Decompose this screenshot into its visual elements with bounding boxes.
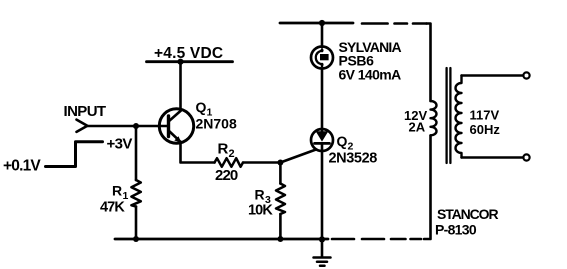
wire emitter to R2 [181, 142, 215, 163]
svg-text:6V 140mA: 6V 140mA [339, 67, 402, 83]
svg-text:2N3528: 2N3528 [329, 151, 378, 167]
node cathode bottom [319, 236, 325, 242]
wire collector [179, 62, 182, 111]
wire SCR cathode [321, 144, 324, 240]
svg-text:47K: 47K [100, 200, 125, 216]
transformer T1 primary winding [431, 101, 437, 135]
wire node to R3 [279, 163, 282, 184]
node lamp top [319, 20, 325, 26]
svg-text:INPUT: INPUT [64, 103, 106, 120]
wire R1 to bottom rail [135, 207, 138, 240]
svg-text:10K: 10K [248, 203, 273, 219]
node input junction [133, 123, 139, 129]
wire secondary bottom [462, 156, 524, 159]
transformer T1 secondary winding [456, 76, 462, 158]
svg-text:117V: 117V [470, 108, 500, 123]
svg-text:R: R [112, 183, 122, 199]
wire R3 to bottom rail [279, 214, 282, 239]
input step waveform [46, 142, 103, 167]
bottom rail [115, 238, 328, 241]
svg-text:2: 2 [229, 148, 235, 160]
wire R2 to node [243, 161, 280, 164]
wire primary to bottom corner [424, 135, 431, 239]
wire lamp to SCR [321, 69, 324, 133]
svg-text:STANCOR: STANCOR [437, 206, 498, 222]
node gate junction [277, 160, 283, 166]
node R1 bottom [133, 236, 139, 242]
svg-text:60Hz: 60Hz [470, 122, 501, 137]
transformer core [447, 68, 451, 163]
dashed wire top [362, 22, 427, 25]
svg-text:+3V: +3V [107, 136, 133, 153]
top rail [280, 22, 353, 25]
power rail +4.5VDC [147, 45, 233, 62]
wire secondary top [462, 74, 524, 77]
node R3 bottom [277, 236, 283, 242]
svg-text:R: R [218, 141, 229, 158]
dashed wire bottom [332, 238, 421, 241]
svg-text:2N708: 2N708 [196, 116, 237, 132]
terminal top [523, 72, 529, 78]
ground [314, 239, 331, 266]
svg-text:220: 220 [215, 167, 238, 184]
resistor R2 [215, 141, 244, 185]
wire base [136, 125, 169, 128]
terminal bottom [523, 154, 529, 160]
wire gate [280, 150, 316, 163]
svg-text:P-8130: P-8130 [435, 222, 477, 238]
transistor Q1 [159, 99, 237, 143]
resistor R3 [248, 184, 285, 219]
svg-text:2A: 2A [409, 120, 426, 135]
svg-text:+4.5 VDC: +4.5 VDC [154, 45, 223, 62]
wire top corner to primary [427, 24, 431, 102]
SCR Q2 [311, 129, 377, 167]
svg-text:Q: Q [196, 99, 207, 115]
node collector on rail [177, 59, 183, 65]
lamp DS1 [311, 47, 333, 69]
wire input to node [88, 125, 137, 128]
input arrow [77, 120, 88, 132]
wire node to R1 [135, 126, 138, 180]
resistor R1 [100, 180, 141, 216]
svg-text:+0.1V: +0.1V [3, 158, 41, 175]
svg-text:R: R [255, 187, 265, 203]
wire rail to lamp [321, 23, 324, 47]
svg-text:Q: Q [337, 133, 348, 149]
